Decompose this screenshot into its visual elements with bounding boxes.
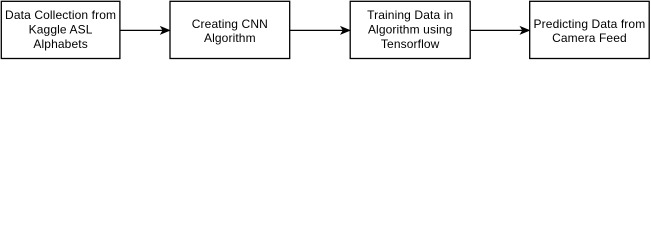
svg-text:Data Collection from: Data Collection from [5, 8, 116, 22]
process box 1: Data Collection [1, 1, 120, 58]
process box 4: Predicting Data [530, 1, 650, 58]
svg-text:Kaggle ASL: Kaggle ASL [29, 23, 93, 37]
svg-text:Creating CNN: Creating CNN [192, 17, 268, 31]
svg-text:Algorithm using: Algorithm using [368, 23, 453, 37]
svg-text:Predicting Data from: Predicting Data from [534, 17, 646, 31]
process box 2: Creating CNN [170, 1, 290, 58]
arrow 2 shaft (box2 -> box3) [290, 29, 343, 31]
svg-text:Algorithm: Algorithm [204, 31, 256, 45]
process box 3: Training Data [350, 1, 470, 58]
arrow 2 head [341, 27, 349, 34]
arrow 3 head [521, 27, 529, 34]
arrow 1 shaft (box1 -> box2) [120, 29, 163, 31]
svg-text:Tensorflow: Tensorflow [381, 37, 440, 51]
svg-text:Training Data in: Training Data in [367, 8, 453, 22]
svg-text:Alphabets: Alphabets [33, 37, 87, 51]
arrow 1 head [161, 27, 169, 34]
svg-text:Camera Feed: Camera Feed [552, 31, 627, 45]
arrow 3 shaft (box3 -> box4) [470, 29, 522, 31]
